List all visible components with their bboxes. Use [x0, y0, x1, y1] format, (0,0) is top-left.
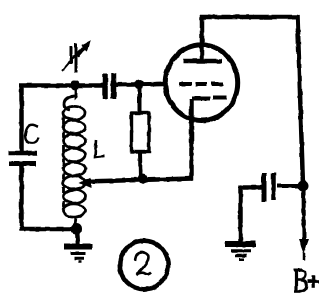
ground right — [225, 244, 256, 260]
wire B+ arrow shaft — [302, 186, 307, 240]
wire top-left horizontal — [19, 83, 104, 88]
label B+ — [294, 269, 319, 293]
wire B+ vertical — [298, 15, 304, 186]
wire ground lead left — [77, 229, 78, 245]
node cathode junction — [138, 174, 148, 184]
wire resistor top lead — [138, 84, 142, 114]
capacitor C3 bypass — [264, 173, 274, 202]
wire cathode vertical — [189, 122, 194, 180]
node ground junction left — [71, 224, 82, 235]
label C — [25, 125, 38, 143]
ground left — [64, 247, 92, 263]
figure number 2 — [135, 252, 151, 275]
resistor R — [132, 113, 150, 152]
wire resistor bottom lead — [138, 151, 143, 179]
wire bypass left — [241, 186, 263, 244]
capacitor C — [8, 153, 37, 164]
node coil top — [70, 81, 80, 91]
label L — [95, 140, 104, 157]
figure label circle — [120, 241, 168, 289]
inductor L — [63, 88, 86, 228]
wire grid cap to junction — [114, 82, 164, 87]
node B+ junction — [298, 181, 309, 192]
wire left vertical upper — [19, 84, 24, 153]
coil tap arrow — [79, 177, 91, 188]
antenna — [62, 41, 90, 73]
capacitor C2 grid — [105, 73, 114, 99]
wire plate top horizontal — [200, 15, 298, 20]
node grid junction — [135, 80, 145, 90]
wire cathode horizontal — [84, 179, 193, 182]
wire bottom-left horizontal — [20, 227, 77, 232]
wire bypass right — [277, 184, 301, 188]
B+ arrowhead — [299, 239, 309, 260]
wire left vertical lower — [19, 166, 24, 231]
tube V1 — [165, 15, 237, 123]
